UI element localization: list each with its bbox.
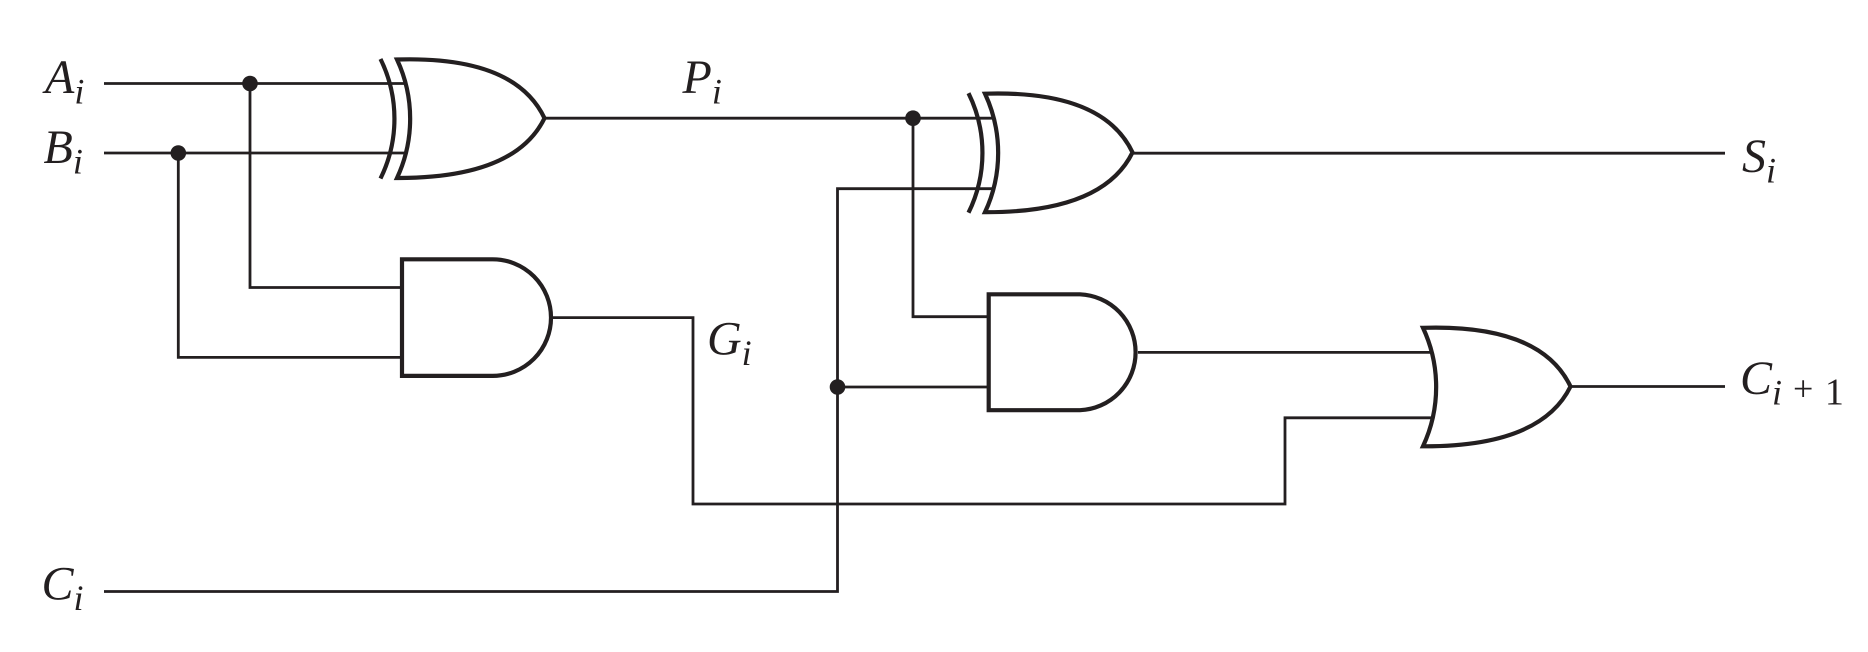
wire C_i+1 output [1570, 385, 1725, 388]
wire AND2 out to OR [1138, 351, 1434, 354]
wire P_i from XOR1 to XOR2 [545, 117, 997, 120]
wire S_i output [1131, 152, 1725, 155]
junction dot on A line [242, 76, 258, 92]
wire C branch to AND2 [838, 386, 991, 389]
junction dot on C line [830, 379, 846, 395]
junction dot on P line [905, 110, 921, 126]
wire P branch down to AND2 [913, 118, 990, 317]
junction dot on B line [171, 145, 187, 161]
XOR gate U3 (P xor C = S) [969, 93, 1133, 213]
wire B branch down to AND1 [178, 153, 404, 357]
OR gate U5 (C_i+1) [1423, 328, 1571, 447]
wire C_i input up to XOR2 [104, 189, 996, 592]
wire A_i input [104, 82, 407, 85]
wire A branch down to AND1 [250, 84, 404, 288]
AND gate U2 (A and B = G) [402, 259, 551, 376]
wire G_i from AND1 to OR [551, 318, 1434, 504]
wire B_i input [104, 152, 407, 155]
XOR gate U1 (A xor B = P) [381, 59, 545, 179]
AND gate U4 (P and C) [989, 294, 1136, 410]
